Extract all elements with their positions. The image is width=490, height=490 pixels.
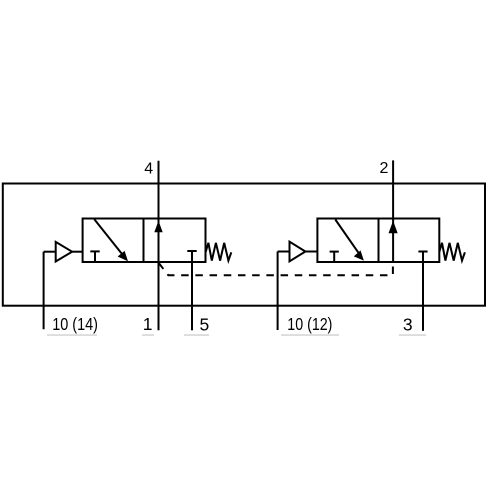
svg-text:10 (14): 10 (14) <box>52 314 98 334</box>
svg-text:10 (12): 10 (12) <box>287 314 332 334</box>
svg-text:4: 4 <box>144 160 153 177</box>
svg-text:5: 5 <box>200 315 210 335</box>
svg-text:2: 2 <box>380 160 389 177</box>
svg-text:3: 3 <box>403 314 413 334</box>
svg-text:1: 1 <box>143 314 153 334</box>
